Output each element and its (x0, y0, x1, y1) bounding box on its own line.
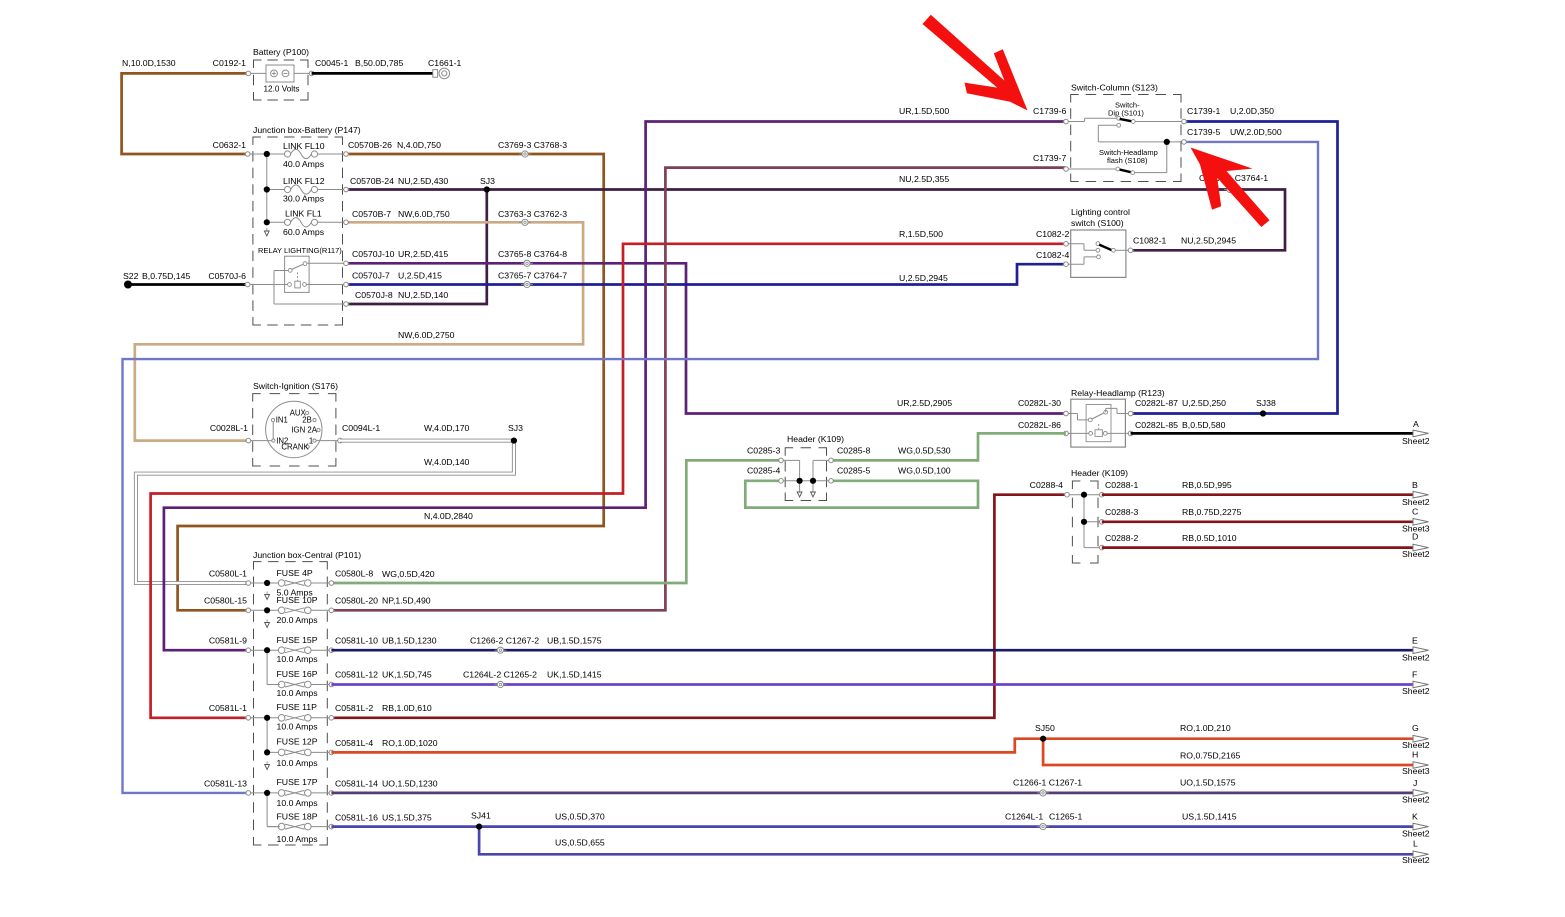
svg-text:WG,0.5D,100: WG,0.5D,100 (898, 466, 951, 476)
svg-text:C0570B-26: C0570B-26 (348, 140, 392, 150)
svg-text:CRANK: CRANK (281, 442, 309, 451)
connector C0570B-24 (343, 187, 350, 192)
svg-text:U,2.5D,415: U,2.5D,415 (398, 271, 442, 281)
svg-text:NU,2.5D,355: NU,2.5D,355 (899, 174, 949, 184)
svg-text:Junction box-Central (P101): Junction box-Central (P101) (253, 550, 361, 560)
svg-text:C0581L-9: C0581L-9 (209, 636, 247, 646)
sheet arrow L (1402, 839, 1430, 866)
svg-text:UR,1.5D,500: UR,1.5D,500 (899, 106, 949, 116)
connector C1739-1 (1181, 119, 1188, 124)
svg-text:10.0 Amps: 10.0 Amps (277, 688, 319, 698)
sheet arrow J (1402, 778, 1430, 805)
link FL10 (283, 141, 346, 169)
svg-text:FUSE 11P: FUSE 11P (277, 702, 318, 712)
svg-text:US,1.5D,375: US,1.5D,375 (382, 813, 432, 823)
svg-text:flash (S108): flash (S108) (1107, 156, 1148, 165)
svg-text:RO,1.0D,1020: RO,1.0D,1020 (382, 738, 438, 748)
svg-text:C0581L-1: C0581L-1 (209, 703, 247, 713)
junction box-Central P101 outline (253, 550, 361, 845)
svg-text:C0570J-6: C0570J-6 (208, 271, 246, 281)
svg-text:US,1.5D,1415: US,1.5D,1415 (1182, 812, 1237, 822)
svg-text:C0282L-86: C0282L-86 (1018, 420, 1061, 430)
svg-text:D: D (1412, 532, 1418, 542)
svg-text:SJ50: SJ50 (1035, 723, 1055, 733)
svg-text:switch (S100): switch (S100) (1071, 218, 1124, 228)
switch-ignition S176 outline (253, 381, 338, 466)
svg-text:B,50.0D,785: B,50.0D,785 (355, 58, 403, 68)
svg-text:40.0 Amps: 40.0 Amps (283, 159, 325, 169)
wire U,2.5D,415 / U,2.5D,2945 (346, 264, 1066, 284)
svg-text:Switch-Ignition (S176): Switch-Ignition (S176) (253, 381, 338, 391)
wire UB,1.5D,1230/1575 (331, 636, 1414, 651)
svg-text:RB,0.75D,2275: RB,0.75D,2275 (1182, 507, 1242, 517)
svg-text:F: F (1412, 670, 1417, 680)
svg-text:C0581L-12: C0581L-12 (335, 670, 378, 680)
wire US,1.5D,375 / US,0.5D,370 / US,1.5D,1415 (331, 812, 1414, 827)
header K109 right outline (1071, 468, 1128, 563)
svg-text:LINK FL10: LINK FL10 (283, 141, 325, 151)
svg-text:C0288-4: C0288-4 (1030, 480, 1063, 490)
switch-headlamp flash S108 (1066, 142, 1167, 175)
connector C0282L-85 (1127, 420, 1225, 436)
connector pair C3765-7 C3764-7 (498, 271, 567, 288)
wire US,0.5D,655 (479, 827, 1414, 855)
svg-text:UR,2.5D,415: UR,2.5D,415 (398, 249, 448, 259)
connector C0581L-14 (328, 779, 438, 796)
svg-text:Header (K109): Header (K109) (787, 434, 844, 444)
connector C0285-3 (747, 446, 784, 463)
svg-text:Sheet2: Sheet2 (1402, 497, 1430, 507)
svg-text:NP,1.5D,490: NP,1.5D,490 (382, 596, 431, 606)
svg-text:FUSE 15P: FUSE 15P (277, 635, 318, 645)
wire UW,2.0D,500 (123, 127, 1319, 793)
svg-text:SJ41: SJ41 (471, 811, 491, 821)
sheet arrow K (1402, 812, 1430, 839)
connector C0581L-4 (328, 738, 438, 755)
svg-text:C0581L-2: C0581L-2 (335, 703, 373, 713)
svg-text:C0580L-15: C0580L-15 (204, 596, 247, 606)
junction box-Battery P147 outline (253, 125, 361, 325)
switch-column S123 outline (1071, 83, 1181, 182)
sheet arrow F (1402, 670, 1430, 697)
P147 bus arrow (264, 228, 269, 236)
fuse 12P (267, 737, 331, 769)
connector pair C1266-1 C1267-1 (1013, 778, 1082, 797)
svg-text:20.0 Amps: 20.0 Amps (277, 615, 319, 625)
connector C0094L-1 (337, 423, 381, 443)
fuse 15P (248, 635, 331, 664)
svg-text:UB,1.5D,1230: UB,1.5D,1230 (382, 636, 437, 646)
svg-text:UO,1.5D,1230: UO,1.5D,1230 (382, 779, 438, 789)
connector C0632-1 (213, 140, 251, 156)
svg-text:Header (K109): Header (K109) (1071, 468, 1128, 478)
svg-text:RELAY LIGHTING(R117): RELAY LIGHTING(R117) (258, 246, 342, 255)
svg-text:SJ3: SJ3 (508, 423, 523, 433)
svg-text:Battery (P100): Battery (P100) (253, 47, 309, 57)
svg-text:U,2.5D,250: U,2.5D,250 (1182, 398, 1226, 408)
connector pair C1264L-1 C1265-1 (1005, 812, 1082, 830)
svg-text:WG,0.5D,420: WG,0.5D,420 (382, 569, 435, 579)
svg-text:C0570J-10: C0570J-10 (352, 249, 395, 259)
svg-text:2B: 2B (302, 415, 312, 424)
svg-text:W,4.0D,170: W,4.0D,170 (424, 423, 470, 433)
svg-text:Sheet2: Sheet2 (1402, 549, 1430, 559)
sheet arrow E (1402, 636, 1430, 663)
splice SJ38 (1256, 398, 1276, 417)
svg-text:B,0.75D,145: B,0.75D,145 (142, 271, 190, 281)
connector C0192-1 (213, 58, 252, 76)
svg-text:Sheet2: Sheet2 (1402, 653, 1430, 663)
ring terminal C1661-1 (428, 58, 461, 79)
svg-text:C1082-2: C1082-2 (1036, 229, 1069, 239)
connector C0581L-10 (328, 636, 437, 653)
connector C0580L-20 (328, 596, 431, 613)
svg-text:C0581L-13: C0581L-13 (204, 779, 247, 789)
fuse 4P (248, 568, 331, 598)
lighting control switch S100 (1066, 207, 1131, 277)
connector C0570B-7 (343, 220, 350, 225)
svg-text:H: H (1412, 750, 1418, 760)
connector C0045-1 (308, 58, 348, 76)
splice S22 (124, 281, 132, 289)
wire B,0.5D,580 (1131, 432, 1414, 435)
wire UK,1.5D,745/1415 (331, 670, 1414, 685)
svg-text:C0288-2: C0288-2 (1105, 533, 1138, 543)
svg-text:B,0.5D,580: B,0.5D,580 (1182, 420, 1226, 430)
svg-text:C3763-3 C3762-3: C3763-3 C3762-3 (498, 209, 567, 219)
wire RO,1.0D,1020 / RO,1.0D,210 (331, 723, 1414, 752)
svg-text:C0581L-16: C0581L-16 (335, 813, 378, 823)
wire WG,0.5D,530 (831, 433, 1066, 460)
wire NU,2.5D,140 (346, 190, 487, 305)
sheet arrow G (1402, 723, 1430, 750)
svg-text:C0580L-20: C0580L-20 (335, 596, 378, 606)
svg-text:G: G (1412, 723, 1419, 733)
svg-text:C0094L-1: C0094L-1 (342, 423, 380, 433)
connector C0570J-6 (208, 271, 251, 287)
svg-text:C1739-6: C1739-6 (1033, 106, 1066, 116)
connector C0288-2 (1098, 533, 1138, 550)
svg-text:FUSE 17P: FUSE 17P (277, 777, 318, 787)
P101 bus dots (264, 580, 270, 796)
svg-text:C1739-5: C1739-5 (1187, 127, 1220, 137)
wire U,2.0D,350 (1131, 106, 1338, 414)
svg-text:Relay-Headlamp (R123): Relay-Headlamp (R123) (1071, 388, 1165, 398)
svg-text:N,4.0D,2840: N,4.0D,2840 (424, 511, 473, 521)
svg-text:Sheet2: Sheet2 (1402, 740, 1430, 750)
svg-text:C0570B-7: C0570B-7 (352, 209, 391, 219)
wire RB,0.5D,995 (1102, 480, 1414, 495)
wire NP,1.5D,490 (331, 153, 1066, 610)
splice SJ3 lower (511, 438, 517, 444)
svg-text:Dip (S101): Dip (S101) (1108, 109, 1144, 118)
wire N,10.0D,1530 battery feed (122, 58, 249, 154)
red annotation arrow 1 (923, 15, 1028, 111)
svg-text:RB,1.0D,610: RB,1.0D,610 (382, 703, 432, 713)
svg-text:C0581L-14: C0581L-14 (335, 779, 378, 789)
svg-text:S22: S22 (123, 271, 139, 281)
svg-text:U,2.0D,350: U,2.0D,350 (1230, 106, 1274, 116)
wire UO,1.5D,1230/1575 (331, 778, 1414, 793)
link FL12 (267, 176, 346, 204)
svg-text:C0282L-85: C0282L-85 (1135, 420, 1178, 430)
connector C0580L-15 (204, 596, 252, 613)
svg-text:C1661-1: C1661-1 (428, 58, 461, 68)
svg-text:R,1.5D,500: R,1.5D,500 (899, 229, 943, 239)
connector C1739-6 (1063, 119, 1070, 124)
svg-text:C0285-3: C0285-3 (747, 446, 780, 456)
svg-text:C1266-2 C1267-2: C1266-2 C1267-2 (470, 636, 539, 646)
svg-text:30.0 Amps: 30.0 Amps (283, 194, 325, 204)
P147 internal bus (248, 154, 285, 222)
connector C0581L-16 (328, 813, 432, 829)
svg-text:12.0 Volts: 12.0 Volts (264, 85, 300, 94)
svg-text:IGN 2A: IGN 2A (291, 426, 317, 435)
svg-text:C0580L-8: C0580L-8 (335, 569, 373, 579)
svg-text:C0570J-7: C0570J-7 (352, 271, 390, 281)
relay LIGHTING R117 (248, 246, 346, 304)
svg-text:C0288-3: C0288-3 (1105, 507, 1138, 517)
connector C1082-2 (1063, 242, 1070, 247)
connector C0288-4 (1030, 480, 1071, 497)
svg-text:C0570B-24: C0570B-24 (350, 176, 394, 186)
svg-text:NW,6.0D,2750: NW,6.0D,2750 (398, 330, 455, 340)
svg-text:C0045-1: C0045-1 (315, 58, 348, 68)
svg-text:UB,1.5D,1575: UB,1.5D,1575 (547, 636, 602, 646)
sheet arrow H (1402, 750, 1430, 777)
connector C0580L-1 (209, 569, 252, 586)
svg-text:W,4.0D,140: W,4.0D,140 (424, 457, 470, 467)
fuse 10P (248, 595, 331, 625)
connector C0285-8 (828, 446, 871, 463)
header K109 middle outline (785, 434, 844, 501)
connector pair C3769-3 C3768-3 (498, 140, 567, 157)
svg-text:Sheet2: Sheet2 (1402, 829, 1430, 839)
svg-text:UW,2.0D,500: UW,2.0D,500 (1230, 127, 1282, 137)
wire UR,1.5D,500 (164, 106, 1067, 650)
connector C0282L-87 (1127, 398, 1226, 416)
svg-text:C0282L-30: C0282L-30 (1018, 398, 1061, 408)
svg-text:Sheet2: Sheet2 (1402, 436, 1430, 446)
svg-text:U,2.5D,2945: U,2.5D,2945 (899, 273, 948, 283)
svg-text:FUSE 12P: FUSE 12P (277, 737, 318, 747)
P101 bus arrows (265, 592, 270, 770)
svg-text:C1264L-1: C1264L-1 (1005, 812, 1043, 822)
sheet arrow A (1402, 419, 1430, 446)
battery P100 (251, 47, 309, 100)
connector C1082-4 (1036, 250, 1069, 267)
svg-text:C0282L-87: C0282L-87 (1135, 398, 1178, 408)
svg-text:C1739-1: C1739-1 (1187, 106, 1220, 116)
red annotation arrow 2 (1191, 148, 1270, 228)
svg-text:C1082-1: C1082-1 (1133, 236, 1166, 246)
wire N,4.0D,750 + N,4.0D,2840 (178, 140, 604, 610)
svg-text:10.0 Amps: 10.0 Amps (277, 654, 319, 664)
svg-text:C0580L-1: C0580L-1 (209, 569, 247, 579)
fuse 17P (248, 777, 331, 808)
svg-text:10.0 Amps: 10.0 Amps (277, 834, 319, 844)
svg-text:L: L (1413, 839, 1418, 849)
svg-text:C0632-1: C0632-1 (213, 140, 246, 150)
svg-text:Sheet3: Sheet3 (1402, 766, 1430, 776)
svg-text:US,0.5D,655: US,0.5D,655 (555, 838, 605, 848)
connector C0570B-26 (343, 152, 350, 157)
connector pair C3765-8 C3764-8 (498, 249, 567, 266)
wire S22 B,0.75D,145 (123, 271, 248, 285)
svg-text:C3765-8 C3764-8: C3765-8 C3764-8 (498, 249, 567, 259)
svg-text:C0285-8: C0285-8 (837, 446, 870, 456)
svg-text:B: B (1412, 480, 1418, 490)
svg-text:WG,0.5D,530: WG,0.5D,530 (898, 446, 951, 456)
connector C0570J-8 (343, 302, 350, 307)
svg-text:NU,2.5D,2945: NU,2.5D,2945 (1181, 236, 1236, 246)
link FL1 (267, 209, 346, 238)
svg-text:NU,2.5D,430: NU,2.5D,430 (398, 176, 448, 186)
svg-text:N,10.0D,1530: N,10.0D,1530 (122, 58, 176, 68)
svg-text:UK,1.5D,1415: UK,1.5D,1415 (547, 670, 602, 680)
svg-text:60.0 Amps: 60.0 Amps (283, 227, 325, 237)
svg-text:US,0.5D,370: US,0.5D,370 (555, 812, 605, 822)
sheet arrow B (1402, 480, 1430, 507)
connector C0282L-86 (1018, 420, 1069, 436)
splice SJ41 (471, 811, 491, 830)
connector C0570J-10 (343, 261, 350, 266)
svg-text:Sheet2: Sheet2 (1402, 855, 1430, 865)
sheet arrow C (1402, 507, 1430, 534)
svg-text:LINK FL12: LINK FL12 (283, 176, 325, 186)
splice SJ50 (1035, 723, 1055, 742)
junction dot FL12 (264, 186, 270, 192)
svg-text:Switch-Column (S123): Switch-Column (S123) (1071, 83, 1158, 93)
svg-text:IN1: IN1 (276, 415, 288, 424)
svg-text:C0285-4: C0285-4 (747, 466, 780, 476)
switch-dip S101 (1066, 101, 1184, 142)
svg-text:NU,2.5D,140: NU,2.5D,140 (398, 290, 448, 300)
svg-text:FUSE 16P: FUSE 16P (277, 669, 318, 679)
connector C0581L-13 (204, 779, 252, 796)
svg-text:C3769-3 C3768-3: C3769-3 C3768-3 (498, 140, 567, 150)
svg-text:C1082-4: C1082-4 (1036, 250, 1069, 260)
connector C0288-1 (1098, 480, 1138, 497)
svg-text:J: J (1413, 778, 1417, 788)
wire W,4.0D,170 / W,4.0D,140 white (136, 423, 523, 583)
svg-text:Lighting control: Lighting control (1071, 207, 1130, 217)
junction dots K109 middle (797, 478, 817, 484)
wire RB,0.75D,2275 (1102, 507, 1414, 522)
fuse 18P (267, 812, 331, 845)
connector pair C3765-1 C3764-1 (1199, 173, 1268, 193)
svg-text:10.0 Amps: 10.0 Amps (277, 758, 319, 768)
connector pair C1266-2 C1267-2 (470, 636, 539, 654)
svg-text:1: 1 (309, 437, 313, 446)
svg-text:C0581L-10: C0581L-10 (335, 636, 378, 646)
connector C0285-4 (747, 466, 784, 484)
svg-text:LINK FL1: LINK FL1 (285, 209, 322, 219)
fuse 11P (248, 702, 331, 732)
svg-text:A: A (1413, 419, 1419, 429)
wire B,50.0D,785 (312, 58, 434, 73)
wire NU,2.5D,430 / NU,2.5D,355 / NU,2.5D,2945 (346, 174, 1285, 250)
svg-text:C1265-1: C1265-1 (1049, 812, 1082, 822)
svg-text:UO,1.5D,1575: UO,1.5D,1575 (1180, 778, 1236, 788)
connector C0581L-2 (328, 703, 432, 720)
wire RO,0.75D,2165 (1043, 739, 1414, 765)
svg-text:C0288-1: C0288-1 (1105, 480, 1138, 490)
wire R,1.5D,500 (151, 229, 1070, 718)
svg-text:RB,0.5D,1010: RB,0.5D,1010 (1182, 533, 1237, 543)
svg-text:NW,6.0D,750: NW,6.0D,750 (398, 209, 450, 219)
junction dots K109 right (1081, 492, 1087, 525)
svg-text:N,4.0D,750: N,4.0D,750 (397, 140, 441, 150)
connector C0028L-1 (210, 423, 252, 443)
svg-text:Sheet2: Sheet2 (1402, 686, 1430, 696)
svg-text:C0028L-1: C0028L-1 (210, 423, 248, 433)
svg-text:C0192-1: C0192-1 (213, 58, 246, 68)
svg-text:RO,0.75D,2165: RO,0.75D,2165 (1180, 751, 1241, 761)
wire RB,1.0D,610 feed (331, 495, 1067, 718)
wire WG,0.5D,420 (331, 460, 781, 583)
P101 bus 11P-12P (266, 718, 268, 753)
svg-text:SJ38: SJ38 (1256, 398, 1276, 408)
connector pair C1264L-2 C1265-2 (463, 670, 537, 688)
svg-text:C3765-7 C3764-7: C3765-7 C3764-7 (498, 271, 567, 281)
relay-headlamp R123 (1066, 388, 1165, 447)
svg-text:C0581L-4: C0581L-4 (335, 738, 373, 748)
K109 middle pins (781, 460, 831, 497)
sheet arrow D (1402, 532, 1430, 560)
svg-text:E: E (1412, 636, 1418, 646)
svg-text:C1739-7: C1739-7 (1033, 153, 1066, 163)
svg-text:FUSE 4P: FUSE 4P (277, 568, 313, 578)
svg-text:FUSE 18P: FUSE 18P (277, 812, 318, 822)
svg-text:SJ3: SJ3 (480, 176, 495, 186)
wire RB,0.5D,1010 (1102, 533, 1414, 548)
svg-text:C1264L-2 C1265-2: C1264L-2 C1265-2 (463, 670, 537, 680)
svg-text:10.0 Amps: 10.0 Amps (277, 798, 319, 808)
connector C1082-1 (1127, 236, 1166, 253)
svg-text:C0570J-8: C0570J-8 (355, 290, 393, 300)
svg-text:Junction box-Battery (P147): Junction box-Battery (P147) (253, 125, 361, 135)
svg-text:RO,1.0D,210: RO,1.0D,210 (1180, 723, 1231, 733)
svg-text:K: K (1412, 812, 1418, 822)
connector C1739-7 (1063, 167, 1070, 172)
connector C1739-5 (1181, 140, 1188, 145)
svg-text:C0285-5: C0285-5 (837, 466, 870, 476)
S176 pins (248, 409, 340, 452)
connector C0581L-12 (328, 670, 432, 687)
svg-text:Sheet2: Sheet2 (1402, 795, 1430, 805)
connector C0570J-7 (343, 282, 350, 287)
connector C0581L-9 (209, 636, 252, 653)
fuse 16P (267, 669, 331, 698)
connector C0288-3 (1098, 507, 1138, 524)
P101 bus 17P-18P (267, 793, 280, 827)
svg-text:RB,0.5D,995: RB,0.5D,995 (1182, 480, 1232, 490)
wire UR,2.5D,415 / UR,2.5D,2905 (346, 249, 1066, 414)
P101 bus 15P-16P (267, 650, 280, 684)
svg-text:C: C (1412, 507, 1418, 517)
junction dot FL1 (264, 219, 270, 225)
connector C0580L-8 (328, 569, 373, 586)
svg-text:C1266-1 C1267-1: C1266-1 C1267-1 (1013, 778, 1082, 788)
wire WG,0.5D,100 loop (745, 466, 978, 508)
junction dot FL10 (264, 151, 270, 157)
connector C0282L-30 (1018, 398, 1069, 416)
wire NW,6.0D,750 + NW,6.0D,2750 (135, 209, 583, 441)
splice SJ3 upper (484, 186, 490, 192)
junction dot S123 (1164, 139, 1170, 145)
connector C0285-5 (828, 466, 871, 484)
